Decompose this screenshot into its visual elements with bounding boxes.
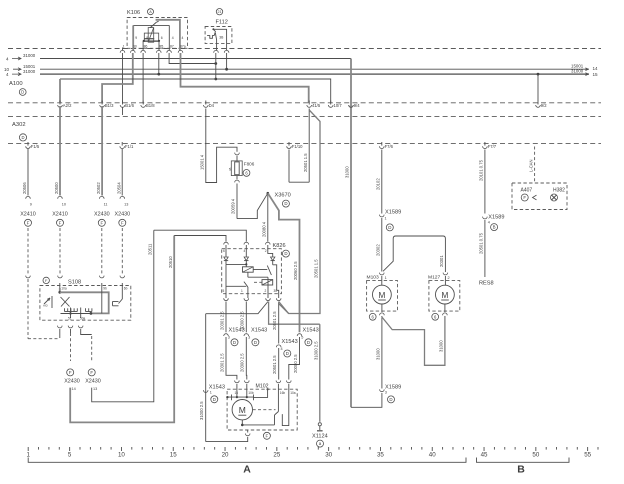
svg-text:D4: D4 — [209, 103, 215, 108]
svg-text:F: F — [121, 220, 124, 225]
svg-text:20080 4: 20080 4 — [261, 221, 266, 237]
svg-text:F1/10: F1/10 — [292, 144, 303, 149]
svg-text:4: 4 — [488, 221, 490, 225]
svg-text:X2430: X2430 — [85, 378, 101, 384]
svg-text:31000: 31000 — [571, 69, 584, 74]
svg-text:20059 4: 20059 4 — [230, 198, 235, 214]
svg-text:M: M — [239, 405, 246, 415]
svg-text:M: M — [441, 291, 448, 300]
svg-text:X2410: X2410 — [20, 211, 36, 217]
svg-text:F: F — [59, 220, 62, 225]
svg-text:D: D — [286, 351, 289, 356]
svg-text:20060 2.5: 20060 2.5 — [293, 261, 298, 280]
svg-text:D: D — [389, 397, 392, 402]
svg-text:4: 4 — [6, 72, 9, 77]
svg-text:F: F — [27, 220, 30, 225]
svg-text:3A: 3A — [228, 167, 232, 171]
svg-text:D: D — [254, 340, 257, 345]
svg-text:X1589: X1589 — [488, 214, 504, 220]
svg-text:RES8: RES8 — [479, 281, 494, 287]
svg-text:F7/6: F7/6 — [385, 144, 394, 149]
svg-text:L-CAN: L-CAN — [529, 159, 534, 172]
svg-text:F: F — [69, 370, 72, 375]
svg-text:20504: 20504 — [117, 182, 122, 194]
svg-text:M: M — [378, 291, 385, 300]
svg-text:A: A — [149, 10, 152, 14]
svg-text:20501 1.5: 20501 1.5 — [314, 259, 319, 278]
svg-text:A2/2: A2/2 — [63, 103, 72, 108]
svg-text:X1124: X1124 — [312, 433, 328, 439]
svg-text:10a: 10a — [61, 287, 67, 291]
svg-text:51: 51 — [68, 316, 72, 320]
svg-text:31000 2.5: 31000 2.5 — [313, 341, 318, 360]
svg-text:1: 1 — [241, 289, 243, 293]
svg-text:20300 2.5: 20300 2.5 — [240, 353, 245, 372]
svg-text:20510: 20510 — [168, 256, 173, 268]
svg-text:20502: 20502 — [96, 182, 101, 194]
svg-text:16: 16 — [235, 391, 239, 395]
svg-text:20: 20 — [222, 451, 229, 458]
svg-text:31000: 31000 — [345, 166, 350, 178]
svg-text:1: 1 — [26, 451, 30, 458]
svg-text:15001: 15001 — [571, 63, 584, 68]
svg-text:85: 85 — [160, 44, 164, 48]
svg-text:H382: H382 — [553, 188, 565, 194]
svg-text:25: 25 — [273, 451, 280, 458]
svg-text:F806: F806 — [244, 162, 255, 167]
svg-text:31000: 31000 — [438, 340, 443, 352]
svg-text:M102: M102 — [256, 383, 269, 389]
svg-text:87a: 87a — [180, 44, 186, 48]
svg-text:87: 87 — [170, 44, 174, 48]
svg-text:B1/3: B1/3 — [105, 103, 114, 108]
svg-text:1: 1 — [385, 276, 387, 280]
svg-text:10: 10 — [62, 203, 66, 207]
svg-text:F1/5: F1/5 — [31, 144, 40, 149]
svg-text:D: D — [233, 340, 236, 345]
svg-text:15001 4: 15001 4 — [199, 154, 204, 170]
svg-text:5: 5 — [223, 289, 225, 293]
svg-text:X1543: X1543 — [282, 339, 298, 345]
svg-text:A: A — [243, 464, 251, 476]
svg-text:3: 3 — [228, 336, 230, 340]
svg-text:30: 30 — [325, 451, 332, 458]
svg-text:45: 45 — [481, 451, 488, 458]
svg-text:3: 3 — [248, 336, 250, 340]
svg-text:B1/8: B1/8 — [146, 103, 155, 108]
svg-text:D: D — [21, 90, 24, 95]
svg-text:20500: 20500 — [54, 182, 59, 194]
svg-text:20301 2.5: 20301 2.5 — [219, 353, 224, 372]
svg-text:20000 2.5: 20000 2.5 — [293, 354, 298, 373]
svg-text:15: 15 — [170, 451, 177, 458]
svg-text:20511: 20511 — [148, 243, 153, 255]
svg-text:4: 4 — [6, 56, 9, 61]
svg-text:20501 2.5: 20501 2.5 — [272, 311, 277, 330]
svg-text:6: 6 — [434, 314, 437, 319]
svg-text:9: 9 — [30, 203, 32, 207]
svg-text:X1589: X1589 — [385, 210, 401, 216]
svg-text:10a: 10a — [290, 391, 296, 395]
svg-text:B: B — [493, 225, 496, 230]
svg-text:2: 2 — [265, 249, 267, 253]
svg-text:F: F — [100, 220, 103, 225]
svg-text:4: 4 — [244, 249, 246, 253]
svg-text:F: F — [266, 433, 269, 438]
svg-text:D: D — [213, 397, 216, 402]
svg-text:X1543: X1543 — [251, 328, 267, 334]
svg-text:6: 6 — [223, 249, 225, 253]
svg-text:A100: A100 — [9, 81, 23, 87]
svg-text:5: 5 — [68, 451, 72, 458]
svg-text:F112: F112 — [216, 20, 228, 26]
svg-text:9/2: 9/2 — [541, 103, 547, 108]
svg-text:20302: 20302 — [375, 244, 380, 256]
svg-text:11: 11 — [104, 203, 108, 207]
svg-text:20506: 20506 — [22, 182, 27, 194]
svg-text:X1543: X1543 — [229, 328, 245, 334]
svg-text:8: 8 — [146, 36, 148, 40]
svg-text:6b: 6b — [124, 287, 128, 291]
svg-text:B: B — [517, 464, 525, 476]
svg-text:K106: K106 — [127, 10, 140, 16]
svg-text:2: 2 — [265, 289, 267, 293]
svg-text:3B: 3B — [219, 36, 224, 40]
svg-text:35: 35 — [377, 451, 384, 458]
svg-text:31000: 31000 — [23, 53, 36, 58]
svg-text:9/4: 9/4 — [354, 103, 360, 108]
svg-text:13: 13 — [93, 387, 97, 391]
svg-text:X3670: X3670 — [275, 193, 291, 199]
svg-text:10/7: 10/7 — [334, 103, 343, 108]
svg-text:D: D — [284, 201, 287, 206]
svg-text:D: D — [388, 225, 391, 230]
svg-text:A302: A302 — [12, 122, 26, 128]
svg-text:X2430: X2430 — [115, 211, 131, 217]
svg-text:F: F — [45, 278, 48, 283]
svg-text:5: 5 — [301, 336, 303, 340]
svg-text:20101 0.75: 20101 0.75 — [478, 159, 483, 181]
svg-text:D: D — [284, 251, 287, 256]
svg-text:D: D — [307, 340, 310, 345]
svg-text:6: 6 — [372, 314, 375, 319]
svg-text:1: 1 — [210, 391, 212, 395]
svg-text:K826: K826 — [273, 243, 286, 249]
svg-text:31000 2.5: 31000 2.5 — [199, 401, 204, 420]
svg-text:4: 4 — [182, 36, 184, 40]
svg-text:15: 15 — [593, 72, 599, 77]
svg-text:D: D — [21, 135, 24, 140]
svg-text:4: 4 — [172, 36, 174, 40]
svg-text:M103: M103 — [367, 274, 380, 280]
svg-text:F: F — [523, 195, 526, 200]
svg-text:9: 9 — [135, 36, 137, 40]
svg-text:30: 30 — [133, 44, 137, 48]
svg-text:2: 2 — [448, 276, 450, 280]
svg-text:a: a — [319, 441, 322, 446]
svg-text:41/5: 41/5 — [312, 103, 321, 108]
svg-text:4: 4 — [281, 347, 283, 351]
svg-text:31000: 31000 — [23, 69, 36, 74]
svg-text:F7/7: F7/7 — [488, 144, 497, 149]
svg-text:X1543: X1543 — [209, 384, 225, 390]
svg-text:1: 1 — [385, 217, 387, 221]
svg-text:B1/6: B1/6 — [125, 103, 134, 108]
svg-text:14: 14 — [593, 66, 599, 71]
svg-text:X2430: X2430 — [94, 211, 110, 217]
svg-text:A407: A407 — [521, 188, 533, 194]
svg-text:20501 1.5: 20501 1.5 — [303, 153, 308, 172]
svg-text:16b: 16b — [280, 391, 286, 395]
svg-text:13: 13 — [124, 203, 128, 207]
svg-text:X1589: X1589 — [385, 384, 401, 390]
svg-text:14: 14 — [72, 387, 76, 391]
svg-text:X1543: X1543 — [303, 328, 319, 334]
svg-text:F: F — [90, 370, 93, 375]
svg-text:S108: S108 — [68, 280, 81, 286]
svg-text:F1/1: F1/1 — [125, 144, 134, 149]
svg-text:X2410: X2410 — [52, 211, 68, 217]
svg-text:21: 21 — [218, 10, 222, 14]
svg-text:20501 2.5: 20501 2.5 — [272, 355, 277, 374]
svg-text:20501 0.75: 20501 0.75 — [478, 232, 483, 254]
svg-text:30: 30 — [274, 289, 278, 293]
svg-text:20301: 20301 — [439, 255, 444, 267]
svg-text:A/D: A/D — [43, 304, 48, 308]
svg-text:50: 50 — [532, 451, 539, 458]
svg-text:50a: 50a — [80, 316, 86, 320]
svg-text:6: 6 — [245, 170, 248, 175]
svg-text:10: 10 — [118, 451, 125, 458]
svg-text:M127: M127 — [428, 274, 441, 280]
svg-text:X2430: X2430 — [64, 378, 80, 384]
svg-text:3: 3 — [385, 391, 387, 395]
svg-text:9b: 9b — [103, 287, 107, 291]
svg-text:55: 55 — [584, 451, 591, 458]
svg-text:20102: 20102 — [375, 178, 380, 190]
svg-text:86: 86 — [144, 44, 148, 48]
svg-text:31000: 31000 — [375, 348, 380, 360]
svg-text:40: 40 — [429, 451, 436, 458]
svg-text:10b: 10b — [248, 391, 254, 395]
svg-text:6: 6 — [161, 36, 163, 40]
